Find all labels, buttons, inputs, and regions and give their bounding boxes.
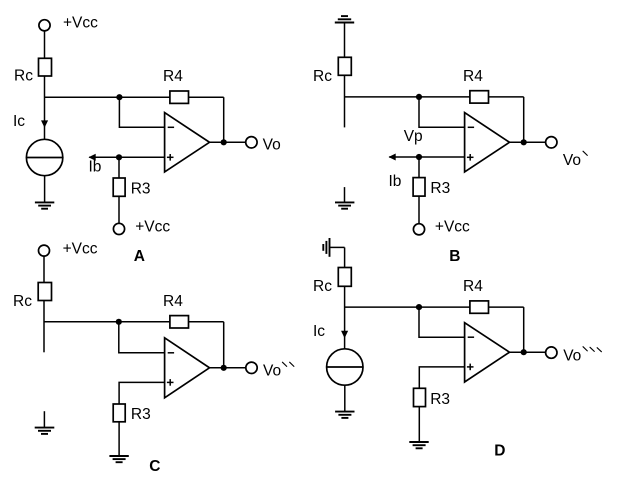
junction B rail	[416, 94, 422, 100]
wire feedback right D	[523, 307, 525, 352]
op-amp U C	[165, 338, 210, 398]
wire output A	[210, 141, 246, 143]
junction B output	[521, 139, 527, 145]
terminal +Vcc C	[39, 245, 50, 256]
wire	[118, 157, 120, 178]
arrow Ic D	[341, 331, 348, 338]
wire	[418, 407, 420, 442]
wire rail C	[44, 321, 224, 323]
svg-text:D: D	[494, 442, 505, 459]
wire	[419, 307, 465, 337]
svg-text:R4: R4	[163, 68, 183, 85]
svg-text:Ic: Ic	[313, 323, 325, 340]
terminal Vo`` C	[246, 362, 257, 373]
current source Ic D	[327, 349, 363, 385]
svg-text:C: C	[149, 458, 160, 475]
svg-text:Rc: Rc	[313, 68, 332, 85]
svg-text:R3: R3	[430, 180, 450, 197]
terminal +Vcc B	[413, 224, 424, 235]
resistor R3 C	[113, 404, 125, 422]
resistor R3 B	[413, 178, 425, 197]
wire	[43, 256, 45, 282]
svg-text:A: A	[134, 248, 145, 265]
svg-text:Vo: Vo	[263, 137, 281, 154]
ground B top (inverted)	[335, 16, 354, 22]
wire	[44, 176, 46, 203]
wire	[418, 157, 420, 178]
svg-text:Vo: Vo	[563, 152, 581, 169]
wire	[344, 385, 346, 411]
wire output B	[510, 141, 546, 143]
wire	[118, 422, 120, 456]
ground C left	[35, 411, 55, 434]
resistor R4 C	[170, 316, 189, 328]
svg-text:R3: R3	[131, 180, 151, 197]
svg-text:+Vcc: +Vcc	[63, 15, 98, 32]
svg-text:R4: R4	[163, 293, 183, 310]
terminal +Vcc A bottom	[113, 223, 124, 234]
svg-text:R4: R4	[463, 278, 483, 295]
terminal Vo``` D	[546, 347, 557, 358]
wire output D	[510, 351, 546, 353]
wire rail B	[345, 96, 524, 98]
svg-text:+Vcc: +Vcc	[135, 218, 170, 235]
wire feedback right B	[523, 97, 525, 142]
ground D below source	[335, 412, 354, 418]
wire	[419, 97, 465, 127]
op-amp U A	[165, 113, 210, 172]
svg-text:+Vcc: +Vcc	[435, 218, 470, 235]
wire + input D	[419, 367, 464, 388]
wire	[118, 196, 120, 223]
svg-text:Rc: Rc	[313, 278, 332, 295]
svg-text:Rc: Rc	[13, 293, 32, 310]
svg-text:R3: R3	[430, 391, 450, 408]
svg-text:Vo: Vo	[263, 363, 281, 380]
wire	[344, 247, 346, 267]
svg-text:Vp: Vp	[404, 128, 423, 145]
ground A	[35, 202, 54, 208]
wire	[44, 31, 46, 58]
junction A plus	[116, 154, 122, 160]
wire	[344, 75, 346, 127]
ground D top (rotated left)	[323, 238, 344, 257]
wire	[418, 196, 420, 224]
terminal +Vcc A	[39, 20, 50, 31]
junction D rail	[416, 304, 422, 310]
ground C below R3	[109, 456, 128, 462]
svg-text:R4: R4	[463, 68, 483, 85]
ground D below R3	[409, 442, 428, 448]
terminal Vo A	[246, 137, 257, 148]
wire feedback right C	[223, 322, 225, 368]
svg-text:Ic: Ic	[13, 113, 25, 130]
svg-text:Ib: Ib	[389, 173, 402, 190]
wire	[344, 23, 346, 58]
wire	[344, 286, 346, 349]
junction D output	[521, 349, 527, 355]
wire	[119, 322, 165, 353]
svg-text:Rc: Rc	[14, 68, 33, 85]
arrow Ib B	[389, 153, 396, 160]
junction C rail	[116, 319, 122, 325]
current source Ic A	[26, 139, 62, 175]
resistor R3 D	[414, 388, 426, 406]
resistor Rc C	[38, 283, 51, 301]
svg-text:+Vcc: +Vcc	[63, 240, 98, 257]
svg-text:R3: R3	[131, 406, 151, 423]
arrow Ic A	[41, 120, 48, 127]
op-amp U B	[465, 113, 510, 172]
wire output C	[210, 367, 247, 369]
resistor R4 A	[170, 91, 189, 103]
terminal Vo` B	[546, 137, 557, 148]
resistor R4 B	[470, 91, 489, 103]
wire + input B	[389, 156, 464, 158]
svg-text:B: B	[449, 248, 460, 265]
arrow Ib A	[89, 154, 96, 161]
resistor Rc B	[338, 57, 351, 75]
wire	[44, 76, 46, 139]
resistor Rc D	[338, 268, 351, 287]
wire rail A	[45, 96, 224, 98]
wire	[43, 301, 45, 353]
resistor Rc A	[39, 58, 52, 76]
op-amp U D	[465, 323, 510, 382]
wire + input C	[119, 382, 165, 404]
svg-text:Ib: Ib	[89, 158, 102, 175]
svg-text:Vo: Vo	[563, 347, 581, 364]
junction A output	[221, 139, 227, 145]
wire rail D	[345, 306, 524, 308]
junction B plus	[416, 154, 422, 160]
resistor R3 A	[113, 178, 125, 196]
ground B left	[335, 187, 354, 209]
wire feedback right A	[223, 97, 225, 142]
wire + input A	[89, 156, 164, 158]
junction A rail	[116, 94, 122, 100]
junction C output	[221, 365, 227, 371]
resistor R4 D	[470, 301, 489, 313]
wire	[119, 97, 164, 127]
